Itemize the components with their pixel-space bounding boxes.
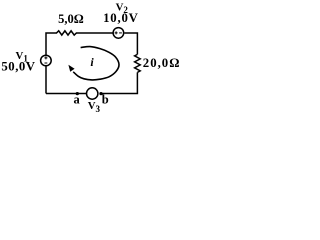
node a dot — [76, 92, 79, 95]
svg-text:5,0Ω: 5,0Ω — [58, 12, 84, 26]
svg-text:a: a — [74, 92, 81, 106]
svg-text:20,0Ω: 20,0Ω — [143, 56, 181, 70]
svg-text:V3: V3 — [88, 100, 101, 114]
resistor R2 20,0ohm zigzag — [135, 54, 141, 72]
current loop arrow — [73, 47, 119, 80]
wire top-right corner — [125, 33, 138, 54]
node b dot — [99, 92, 102, 95]
svg-text:10,0V: 10,0V — [103, 11, 139, 25]
svg-text:i: i — [90, 55, 94, 69]
wire bottom-left segment — [46, 93, 86, 95]
resistor R1 5,0ohm zigzag — [57, 31, 77, 35]
wire right lower — [100, 72, 137, 93]
V1 minus sign — [45, 62, 48, 64]
voltage source V1 circle — [41, 55, 52, 66]
voltage source V2 circle — [113, 28, 124, 39]
wire top-left segment — [46, 33, 57, 67]
svg-text:b: b — [102, 92, 109, 106]
wire top middle — [76, 32, 113, 34]
V2 minus sign — [119, 32, 122, 34]
V1 plus sign — [44, 56, 47, 59]
voltage source V3 circle — [87, 88, 98, 99]
V2 plus sign — [115, 31, 118, 34]
svg-text:50,0V: 50,0V — [1, 59, 35, 73]
wire left lower — [45, 67, 47, 94]
current loop arrowhead — [68, 65, 74, 72]
